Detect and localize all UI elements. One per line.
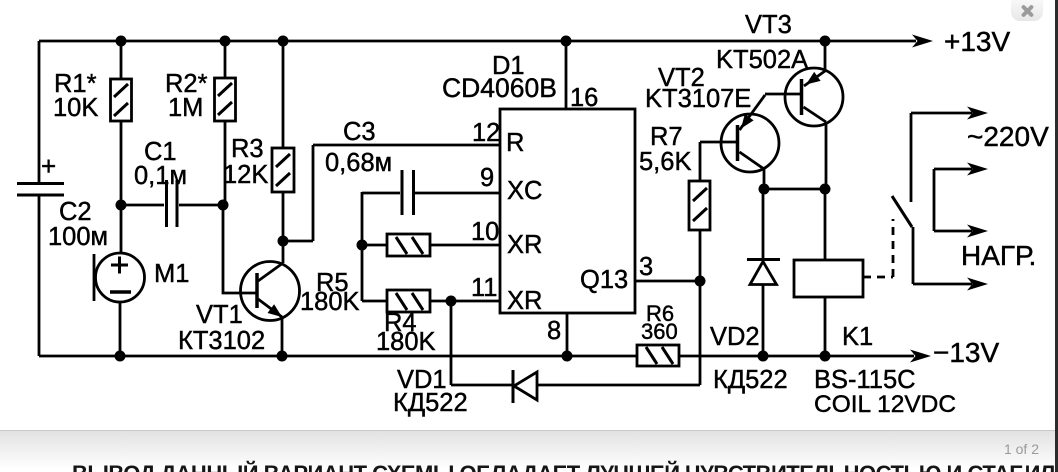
wire node to VT1 base <box>223 205 256 293</box>
dashed link relay to switch <box>863 219 893 277</box>
capacitor C1 plates <box>167 180 178 227</box>
arrowhead bracket bottom <box>967 225 988 238</box>
junction dot rail M1 <box>115 351 126 362</box>
svg-text:НАГР.: НАГР. <box>961 240 1036 271</box>
svg-text:BS-115C: BS-115C <box>814 366 916 394</box>
diode VD2 triangle <box>750 262 777 285</box>
transistor VT1 emitter <box>258 299 282 317</box>
wire C3 bus left <box>362 192 400 195</box>
svg-text:КД522: КД522 <box>393 389 468 417</box>
wire VT1 emitter to rail <box>281 318 284 356</box>
svg-text:R: R <box>506 129 524 157</box>
wire VD1 to Q13 node <box>699 281 702 385</box>
capacitor C3 plates <box>402 170 414 215</box>
wire bottom -13V rail left part <box>39 355 637 358</box>
svg-text:КТ3102: КТ3102 <box>178 327 265 355</box>
svg-text:0,1м: 0,1м <box>134 162 187 190</box>
wire pin11 node down to VD1 line <box>450 301 453 385</box>
wire relay coil top <box>824 189 827 260</box>
wire R7 top to VT2 base <box>700 142 737 181</box>
junction dot pin11/VD1 <box>446 296 457 307</box>
junction dot VT2 collector node <box>759 184 770 195</box>
arrowhead VT1 emitter <box>268 304 283 317</box>
junction dot top rail R3 <box>278 36 289 47</box>
transistor VT3 body <box>785 68 843 126</box>
resistor R2 slashes <box>218 83 232 115</box>
wire middle bracket <box>934 169 972 231</box>
arrowhead bracket top <box>967 163 988 176</box>
junction dot node R2/C1/VT1 base <box>218 200 229 211</box>
wire pin8 to rail <box>566 313 569 356</box>
switch blade <box>892 196 912 227</box>
junction dot rail VD2 <box>758 351 769 362</box>
wire R2 bottom to node <box>224 121 227 205</box>
transistor VT2 emitter <box>740 95 766 130</box>
resistor R4 body <box>387 290 430 312</box>
arrowhead VT3 emitter <box>806 72 821 85</box>
junction dot top rail VT3 emitter <box>820 36 831 47</box>
wire VD2 top <box>762 189 765 259</box>
wire M1 bottom to rail <box>119 302 122 356</box>
microphone M1 plus sign <box>111 257 128 274</box>
resistor R1 body <box>111 79 132 121</box>
diode VD1 cathode bar <box>512 370 515 403</box>
wire VT2 collector down <box>763 169 766 189</box>
svg-text:12: 12 <box>472 119 500 147</box>
junction dot top rail R1 <box>116 36 127 47</box>
svg-text:5,6K: 5,6K <box>639 148 691 176</box>
resistor R6 slashes <box>646 347 673 364</box>
svg-text:100м: 100м <box>48 223 108 251</box>
junction dot rail relay <box>820 351 831 362</box>
svg-text:+13V: +13V <box>944 26 1010 57</box>
svg-text:10K: 10K <box>53 94 98 122</box>
svg-text:0,68м: 0,68м <box>325 149 392 177</box>
wire Q13 node up to R7 <box>699 230 702 281</box>
arrowhead load bottom <box>967 278 988 291</box>
wire VD1 line right <box>537 384 700 387</box>
junction dot R3/VT1 collector <box>278 236 289 247</box>
transistor VT3 base bar <box>800 79 804 115</box>
resistor R5 slashes <box>396 237 423 254</box>
svg-text:C2: C2 <box>59 198 92 226</box>
svg-text:10: 10 <box>471 218 499 246</box>
wire left vertical from top rail to C2 <box>38 41 41 184</box>
wire node to M1 top <box>120 205 123 254</box>
svg-text:K1: K1 <box>842 323 873 351</box>
svg-text:R3: R3 <box>231 135 264 163</box>
svg-text:+: + <box>41 151 56 181</box>
wire VT2 emitter to VT3 base <box>765 93 801 96</box>
svg-text:11: 11 <box>471 274 497 302</box>
wire R1 bottom <box>120 121 123 205</box>
svg-text:9: 9 <box>480 164 494 192</box>
resistor R1 slashes <box>114 84 128 116</box>
transistor VT1 body <box>241 262 300 321</box>
svg-text:360: 360 <box>641 319 678 344</box>
svg-text:8: 8 <box>547 317 561 345</box>
close button <box>1011 0 1043 21</box>
pager bar <box>0 430 1055 467</box>
svg-text:M1: M1 <box>154 260 189 288</box>
wire pin16 <box>565 41 568 109</box>
transistor VT2 collector <box>740 152 765 169</box>
junction dot bus R5 <box>357 240 368 251</box>
wire R3 top <box>282 41 285 148</box>
svg-text:CD4060B: CD4060B <box>442 73 557 103</box>
junction dot rail VT1 emitter <box>277 351 288 362</box>
wire R5 to pin10 XR <box>430 244 500 247</box>
resistor R6 body <box>637 345 679 366</box>
wire collector node to pin12 of D1 <box>283 145 500 241</box>
transistor VT1 base bar <box>255 273 259 308</box>
junction dot top rail R2 <box>220 36 231 47</box>
wire bus to R5 <box>362 244 387 247</box>
wire pin3 Q13 <box>635 280 700 283</box>
svg-text:C3: C3 <box>343 118 376 146</box>
arrowhead 220V top <box>967 107 988 120</box>
svg-text:3: 3 <box>639 253 653 281</box>
microphone M1 electrode bar <box>93 254 96 301</box>
junction dot Q13/R7/VD1 <box>695 276 706 287</box>
wire R1 top <box>120 41 123 79</box>
microphone M1 minus sign <box>110 290 131 294</box>
wire mid line R1 to C1 <box>121 204 164 207</box>
wire relay coil bottom to rail <box>824 297 827 356</box>
resistor R7 body <box>689 181 710 230</box>
wire VT3 emitter to top rail <box>824 41 827 72</box>
relay K1 coil body <box>794 260 863 297</box>
svg-text:KT502A: KT502A <box>716 46 808 74</box>
wire VT3 collector down <box>825 122 828 189</box>
svg-text:12K: 12K <box>223 161 268 189</box>
wire R2 top <box>224 41 227 78</box>
svg-text:XR: XR <box>507 287 542 315</box>
arrowhead -13V <box>910 350 931 363</box>
wire C1 right to node <box>179 204 223 207</box>
wire 220V top arrow line <box>911 112 972 115</box>
resistor R5 body <box>387 234 430 256</box>
resistor R2 body <box>215 78 236 121</box>
wire C3 to pin9 XC <box>415 192 500 195</box>
IC D1 body <box>500 109 635 313</box>
transistor VT2 body <box>721 114 779 172</box>
svg-text:VT3: VT3 <box>745 11 792 39</box>
svg-text:180K: 180K <box>300 288 360 316</box>
wire VD1 line left <box>451 384 512 387</box>
svg-text:VD2: VD2 <box>710 323 760 351</box>
capacitor C2 plates <box>17 184 64 196</box>
junction dot rail pin8 <box>562 351 573 362</box>
svg-text:−13V: −13V <box>933 337 999 368</box>
svg-text:~220V: ~220V <box>967 121 1049 152</box>
junction dot VT3 collector node <box>820 184 831 195</box>
transistor VT2 base bar <box>736 125 740 161</box>
diode VD1 triangle <box>514 372 537 400</box>
svg-text:R7: R7 <box>650 123 683 151</box>
arrowhead VT2 emitter <box>741 114 754 129</box>
wire top +13V rail <box>39 40 916 43</box>
svg-text:KT3107E: KT3107E <box>645 85 751 113</box>
resistor R7 slashes <box>693 188 707 221</box>
resistor R3 slashes <box>276 154 290 186</box>
junction dot top rail pin16 <box>561 36 572 47</box>
transistor VT3 collector <box>804 107 827 122</box>
wire bus to R4 <box>362 300 387 303</box>
svg-text:16: 16 <box>570 84 598 112</box>
transistor VT3 emitter <box>804 71 825 86</box>
switch upper contact wire <box>910 113 913 202</box>
svg-text:XC: XC <box>507 177 542 205</box>
microphone M1 body <box>96 253 145 302</box>
wire collector node to VT1 <box>282 241 285 263</box>
wire C2 to bottom rail <box>38 196 41 356</box>
wire R4 to pin11 XR <box>430 300 500 303</box>
junction dot mid node R1/C1/M1 <box>116 200 127 211</box>
transistor VT1 collector <box>258 263 283 281</box>
wire RC bus vertical <box>361 192 364 301</box>
caption text (clipped at bottom) <box>72 461 1058 472</box>
wire collector node link <box>764 188 826 191</box>
svg-text:VT1: VT1 <box>196 301 243 329</box>
diode VD2 cathode bar <box>747 258 780 261</box>
arrowhead +13V <box>912 35 933 48</box>
svg-text:COIL 12VDC: COIL 12VDC <box>814 391 956 418</box>
svg-text:1M: 1M <box>168 94 203 122</box>
svg-text:XR: XR <box>507 231 542 259</box>
svg-text:Q13: Q13 <box>580 266 628 294</box>
resistor R3 body <box>272 148 294 192</box>
wire bottom load arrow line <box>913 283 972 286</box>
right dark edge <box>1055 0 1058 472</box>
wire VD2 bottom to rail <box>762 285 765 356</box>
wire bottom -13V rail right part <box>679 355 914 358</box>
wire R3 bottom to collector node <box>282 192 285 241</box>
svg-text:КД522: КД522 <box>713 366 788 394</box>
svg-text:180K: 180K <box>376 328 436 356</box>
resistor R4 slashes <box>396 293 423 310</box>
switch lower wire <box>912 227 915 284</box>
